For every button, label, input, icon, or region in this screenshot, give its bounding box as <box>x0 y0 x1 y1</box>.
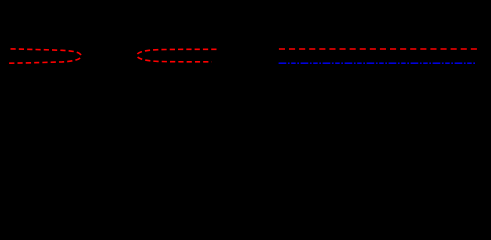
middle red dashed oval, rounded cap on left, open right <box>137 49 217 62</box>
right blue dash-dot underline <box>279 62 476 64</box>
right red dashed underline <box>279 48 477 50</box>
left red dashed oval (clipped at left edge), rounded cap on right <box>9 49 81 63</box>
